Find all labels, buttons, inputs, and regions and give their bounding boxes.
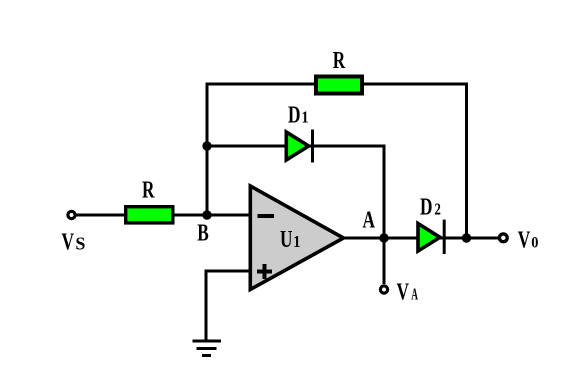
svg-text:V: V: [518, 226, 530, 254]
wire left feedback vertical: [206, 83, 209, 216]
svg-text:2: 2: [435, 201, 441, 219]
label D2: [420, 193, 441, 221]
svg-text:A: A: [363, 206, 375, 234]
wire non-inverting input vertical to ground: [205, 270, 208, 342]
svg-text:S: S: [75, 234, 85, 254]
svg-text:D: D: [420, 193, 432, 221]
svg-text:1: 1: [293, 233, 300, 251]
terminal VS: [68, 211, 75, 218]
resistor R (feedback): [316, 77, 362, 94]
terminal VO: [499, 234, 507, 242]
svg-text:A: A: [411, 285, 418, 304]
label U1: [280, 225, 301, 253]
wire input from VS to op-amp: [76, 214, 250, 217]
ground: [193, 341, 222, 356]
label VO: [518, 226, 539, 254]
label VS: [62, 228, 86, 256]
label D1: [288, 101, 309, 129]
svg-text:R: R: [142, 176, 155, 204]
svg-text:0: 0: [531, 234, 539, 252]
wire D1 branch vertical down to node A: [383, 145, 386, 239]
node junction at output/feedback: [462, 233, 471, 242]
resistor R (input): [126, 207, 173, 223]
diode D1: [286, 130, 312, 163]
diode D2: [418, 220, 444, 254]
wire non-inverting input horizontal: [206, 270, 250, 273]
terminal VA: [380, 286, 387, 293]
node B: [202, 210, 211, 219]
svg-text:U: U: [280, 225, 292, 253]
label VA: [397, 278, 419, 306]
wire output from op-amp to VO: [344, 237, 498, 240]
op-amp U1: [250, 186, 343, 290]
label A: [363, 206, 375, 234]
svg-text:B: B: [197, 219, 209, 247]
node junction at D1 tap: [202, 141, 211, 150]
label B: [197, 219, 209, 247]
wire top feedback horizontal: [207, 83, 467, 86]
wire right feedback vertical: [465, 83, 468, 239]
svg-text:R: R: [333, 46, 346, 74]
wire D1 branch horizontal: [207, 145, 384, 148]
svg-text:V: V: [397, 278, 409, 306]
label R (feedback resistor): [333, 46, 346, 74]
node A: [379, 233, 388, 242]
label R (input resistor): [142, 176, 155, 204]
svg-text:D: D: [288, 101, 300, 129]
svg-text:1: 1: [301, 108, 308, 126]
svg-text:V: V: [62, 228, 74, 256]
wire node A down to VA terminal: [383, 238, 386, 284]
